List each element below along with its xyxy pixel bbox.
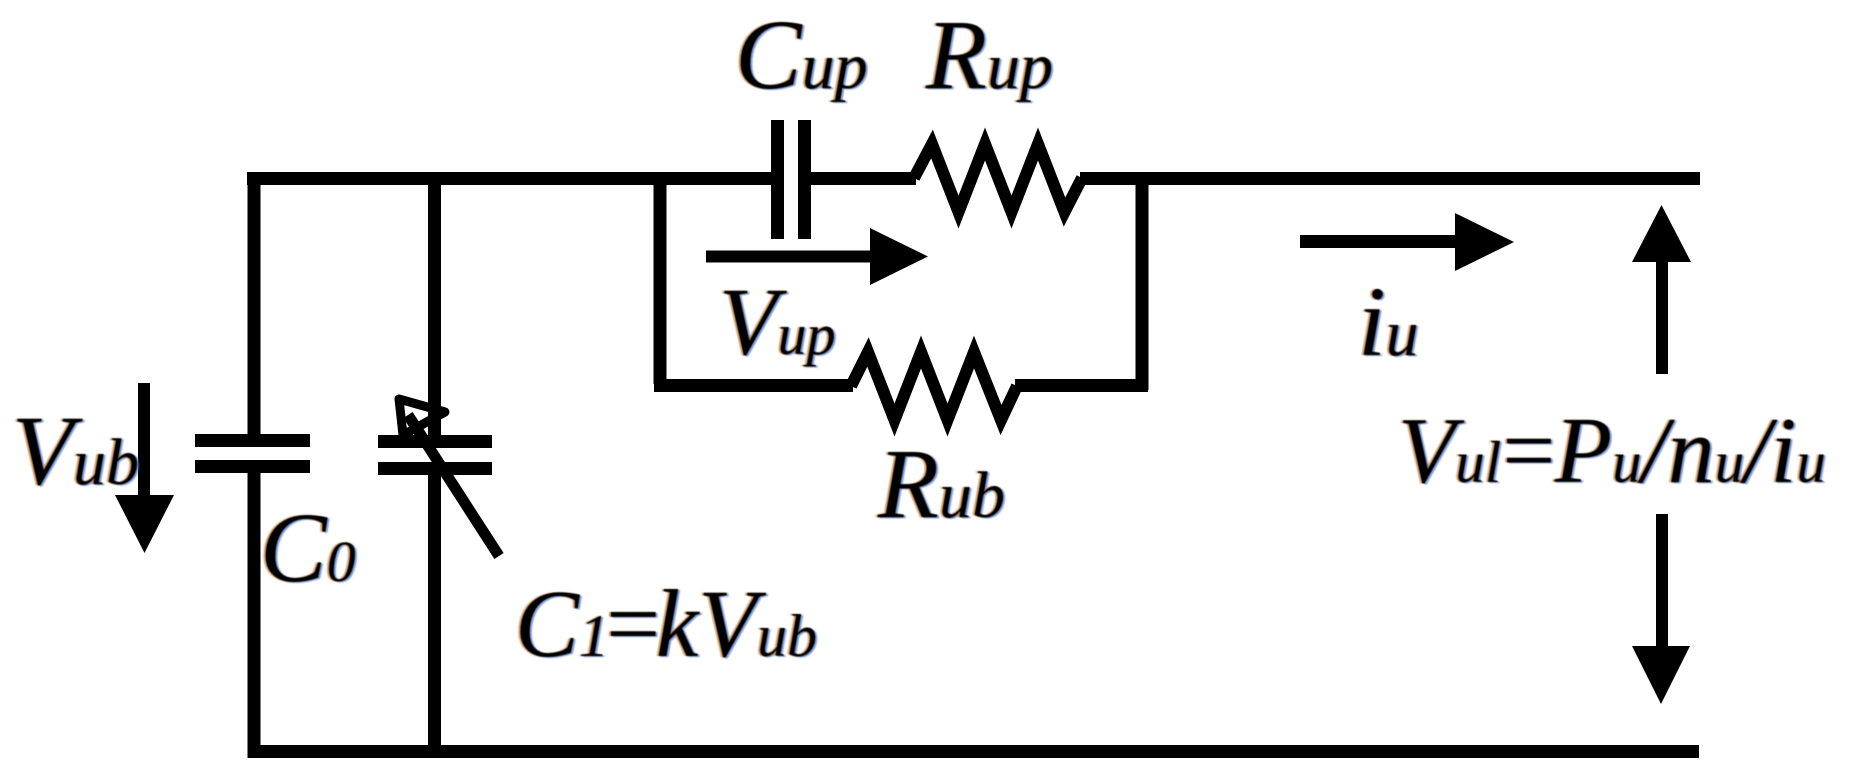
wire left vertical upper segment	[248, 172, 261, 434]
arrow Vul double-headed lower part	[1632, 514, 1690, 704]
variable capacitor C1 arrow	[399, 399, 499, 556]
arrow Vup (current direction)	[706, 228, 928, 285]
label Vub	[12, 401, 139, 501]
wire parallel-box bottom-right segment	[1015, 379, 1148, 392]
wire left vertical lower segment	[248, 473, 261, 758]
label Rup	[926, 5, 1053, 105]
capacitor Cup	[778, 120, 805, 239]
label Cup	[735, 5, 868, 105]
arrow iu (current direction)	[1300, 213, 1514, 271]
capacitor C1 (variable)	[378, 442, 492, 469]
wire second branch vertical upper segment	[428, 172, 441, 435]
wire top-left horizontal segment	[247, 172, 772, 185]
label C0	[260, 498, 356, 598]
wire parallel-box right vertical	[1136, 178, 1149, 390]
resistor Rub	[851, 352, 1017, 420]
wire top-right horizontal segment	[1080, 172, 1700, 185]
label Vul=Pu/nu/iu	[1398, 404, 1826, 498]
label C1=kVub	[515, 576, 817, 672]
wire parallel-box left vertical	[654, 172, 667, 384]
wire bottom horizontal	[248, 745, 1700, 758]
label Rub	[878, 434, 1005, 534]
label Vup	[719, 274, 836, 370]
label iu	[1358, 272, 1419, 372]
wire top middle segment between Cup and Rup	[810, 172, 916, 185]
resistor Rup	[914, 144, 1082, 212]
arrow Vul double-headed upper part	[1632, 205, 1691, 374]
capacitor C0	[195, 441, 310, 467]
wire parallel-box bottom-left segment	[654, 379, 853, 392]
wire second branch vertical lower segment	[428, 474, 441, 758]
arrow Vub (downward)	[115, 383, 174, 553]
